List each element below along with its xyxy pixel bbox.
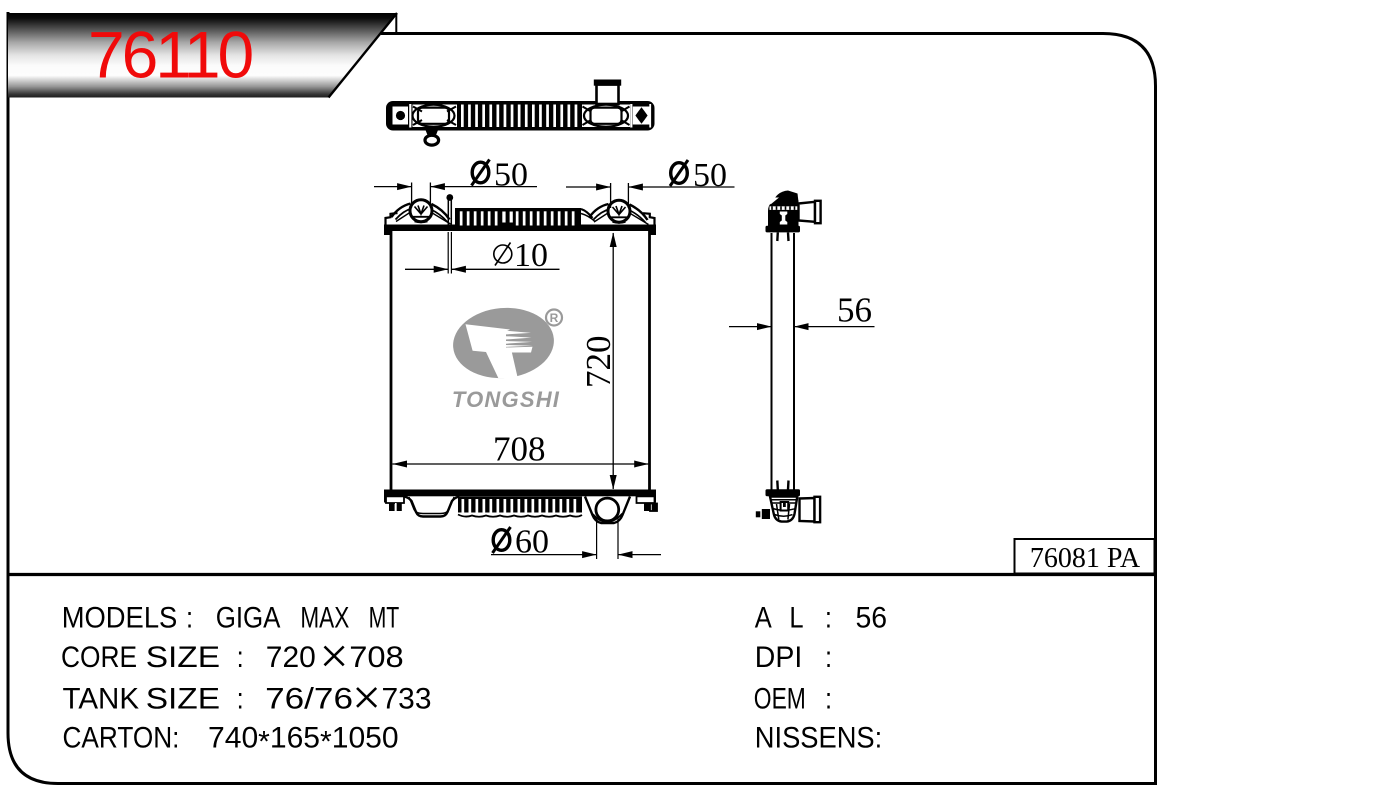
top view: white gap left: [409, 104, 411, 128]
svg-text:10: 10: [514, 237, 548, 274]
side view: top flange: [766, 226, 801, 233]
svg-text:OEM: OEM: [754, 682, 806, 715]
svg-text:NISSENS:: NISSENS:: [755, 721, 882, 754]
dimension Ø50 left: [374, 157, 537, 208]
svg-text:76/76: 76/76: [265, 682, 353, 715]
front view group: [384, 194, 657, 523]
part number banner (gradient ribbon): [8, 13, 397, 98]
top view: filler neck: [594, 80, 621, 105]
dimension Ø60: [491, 518, 661, 561]
front view: bottom left leg: [404, 497, 460, 517]
side view: top dangles: [777, 232, 788, 241]
top view: left end cap window: [393, 107, 409, 125]
side view: bottom cup: [770, 497, 797, 522]
top view: right end white line: [649, 104, 651, 128]
svg-text:76110: 76110: [88, 18, 253, 92]
side view: bottom side pipe: [800, 497, 821, 522]
dimension 720 vertical: [579, 233, 618, 490]
separator line between drawing and spec table: [8, 573, 1156, 576]
top view: left tank window: [413, 105, 458, 128]
svg-text:740*165*1050: 740*165*1050: [208, 721, 399, 758]
svg-text:R: R: [550, 311, 559, 325]
svg-text:TONGSHI: TONGSHI: [452, 387, 560, 412]
spec text CORE SIZE row: [61, 640, 404, 673]
spec text AL row: [755, 601, 887, 634]
front view: core right edge: [648, 231, 651, 490]
svg-text:A: A: [755, 601, 772, 634]
front view: bottom right foot: [637, 496, 657, 511]
svg-text:CARTON:: CARTON:: [63, 721, 180, 754]
top view: right mounting diamond: [635, 107, 647, 124]
svg-text:CORE: CORE: [61, 640, 137, 673]
reference label box 76081 PA: [1015, 539, 1155, 574]
svg-text:MAX: MAX: [300, 601, 349, 634]
logo watermark: [450, 304, 562, 412]
svg-text:MT: MT: [369, 601, 400, 634]
svg-text:720: 720: [579, 336, 618, 389]
front view: bottom left foot: [386, 496, 404, 511]
svg-text::: :: [825, 601, 832, 634]
front view: right bracket dome outer: [590, 204, 609, 217]
front view: top serrated strip: [455, 208, 581, 226]
spec text OEM row: [754, 682, 832, 715]
svg-text:GIGA: GIGA: [216, 601, 281, 634]
front view: right step: [643, 213, 655, 225]
front view: top bar end caps: [384, 225, 391, 236]
svg-text::: :: [237, 640, 244, 673]
svg-text:56: 56: [837, 291, 872, 330]
side view: tube walls: [772, 233, 795, 490]
svg-text:56: 56: [856, 601, 888, 634]
svg-text:MODELS: MODELS: [62, 601, 178, 634]
front view: core left edge: [390, 231, 393, 490]
side view: top elbow fitting: [768, 191, 799, 227]
svg-text:SIZE: SIZE: [146, 640, 220, 673]
front view: right bracket eye circle: [608, 200, 630, 223]
front view: bottom serrated strip: [458, 497, 582, 517]
top view: white gap right: [630, 104, 632, 128]
side view: top side pipe: [799, 201, 821, 223]
side view: drain valve: [756, 509, 770, 519]
svg-text:DPI: DPI: [755, 640, 802, 673]
spec text MODELS row: [62, 601, 400, 634]
svg-text:720: 720: [266, 640, 316, 673]
top view: right end cap window: [633, 107, 650, 125]
svg-text:60: 60: [515, 524, 549, 561]
dimension 56: [729, 291, 875, 331]
svg-text::: :: [237, 682, 244, 715]
top view: right tank window: [582, 105, 630, 128]
dimension Ø10 pin: [405, 232, 560, 274]
front view: left bracket dome outer: [392, 204, 411, 218]
front view: left bracket eye circle: [410, 200, 432, 223]
front view: top tank profile left step: [386, 213, 398, 226]
dimension 708 horizontal: [393, 430, 649, 469]
svg-text:50: 50: [693, 157, 727, 194]
svg-text:708: 708: [493, 430, 546, 469]
svg-text::: :: [825, 682, 832, 715]
front view: right bracket braces: [594, 211, 649, 225]
front view: left bracket dome inner: [396, 209, 413, 220]
svg-text:50: 50: [494, 157, 528, 194]
top view: drain clip: [425, 130, 439, 145]
spec text DPI row: [755, 640, 832, 673]
front view: locating pin: [446, 194, 453, 226]
top view: tank bar body: [386, 80, 655, 146]
logo registered mark: [546, 310, 562, 326]
front view: right stub: [650, 504, 657, 512]
front view: right swoop profile: [581, 209, 593, 218]
svg-text:733: 733: [382, 682, 432, 715]
front view: drain boss: [585, 497, 630, 524]
top view: left mounting hole dot: [396, 111, 405, 120]
svg-text:TANK: TANK: [63, 682, 140, 715]
svg-text:708: 708: [349, 640, 403, 673]
front view: left bracket braces: [396, 211, 451, 225]
svg-text:L: L: [789, 601, 803, 634]
front view: right bracket dome right tangent: [630, 205, 648, 221]
top view: fin stripes: [461, 105, 577, 128]
spec text CARTON row: [63, 721, 399, 758]
svg-text:76081 PA: 76081 PA: [1030, 543, 1141, 574]
svg-text:SIZE: SIZE: [146, 682, 220, 715]
side view group: [756, 191, 821, 523]
front view: left bracket dome right tangent: [432, 204, 450, 220]
side view: bottom dangles: [777, 481, 788, 490]
dimension Ø50 right: [566, 157, 735, 208]
front view: top header bar: [384, 225, 656, 232]
drawing frame border: [8, 12, 1156, 784]
front view: bottom header bar: [384, 490, 656, 497]
side view: bottom flange: [766, 489, 801, 496]
spec text TANK SIZE row: [63, 682, 432, 715]
part number text 76110: [88, 18, 253, 92]
svg-text::: :: [186, 601, 193, 634]
svg-text::: :: [825, 640, 832, 673]
